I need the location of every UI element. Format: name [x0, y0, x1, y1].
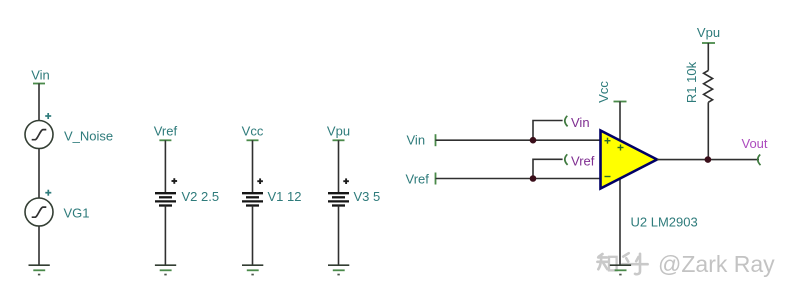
- svg-text:V1 12: V1 12: [268, 189, 302, 204]
- svg-text:Vcc: Vcc: [596, 81, 611, 103]
- junction: [530, 175, 537, 182]
- op-amp U2: [601, 131, 698, 230]
- net label Vin: [565, 115, 590, 130]
- svg-text:Vref: Vref: [154, 124, 178, 139]
- wire: [164, 206, 166, 266]
- watermark: [597, 253, 647, 274]
- svg-text:V2 2.5: V2 2.5: [182, 189, 220, 204]
- wire: [657, 159, 759, 161]
- node Vpu (pull-up): [697, 25, 720, 43]
- wire: [619, 178, 621, 265]
- svg-text:@Zark Ray: @Zark Ray: [658, 251, 775, 277]
- wire: [436, 139, 601, 141]
- net label Vref: [565, 153, 595, 168]
- wire: [252, 206, 254, 266]
- node Vout: [742, 136, 768, 165]
- source V_Noise: [25, 113, 113, 149]
- svg-text:V_Noise: V_Noise: [64, 129, 113, 144]
- wire: [38, 149, 40, 199]
- wire: [164, 140, 166, 193]
- wire: [338, 206, 340, 266]
- ground: [610, 265, 631, 275]
- svg-text:U2 LM2903: U2 LM2903: [631, 215, 698, 230]
- wire: [707, 102, 709, 159]
- node Vpu: [327, 124, 350, 141]
- node Vcc: [242, 124, 264, 141]
- wire: [338, 140, 340, 193]
- svg-text:Vref: Vref: [571, 153, 595, 168]
- wire: [707, 43, 709, 71]
- wire: [436, 178, 601, 180]
- wire: [533, 159, 563, 178]
- node Vref: [154, 124, 178, 141]
- svg-text:Vpu: Vpu: [697, 25, 720, 40]
- wire: [619, 102, 621, 143]
- svg-text:Vpu: Vpu: [327, 124, 350, 139]
- wire: [252, 140, 254, 193]
- wire: [38, 84, 40, 121]
- junction: [705, 156, 712, 163]
- svg-text:R1 10k: R1 10k: [684, 61, 699, 103]
- ground: [29, 265, 50, 275]
- battery V2: [155, 178, 219, 205]
- svg-text:Vcc: Vcc: [242, 124, 264, 139]
- battery V1: [242, 178, 301, 205]
- battery V3: [328, 178, 380, 205]
- svg-text:Vref: Vref: [406, 171, 430, 186]
- svg-text:Vin: Vin: [571, 115, 590, 130]
- junction: [530, 137, 537, 144]
- node Vin input: [407, 132, 436, 147]
- wire: [38, 226, 40, 265]
- svg-text:Vout: Vout: [742, 136, 768, 151]
- wire: [533, 121, 563, 141]
- node Vref input: [406, 171, 436, 186]
- node Vcc (op-amp supply): [596, 81, 627, 103]
- ground: [242, 265, 263, 275]
- node Vin: [31, 68, 50, 84]
- resistor R1: [684, 61, 713, 103]
- svg-text:VG1: VG1: [64, 206, 90, 221]
- svg-text:Vin: Vin: [407, 132, 426, 147]
- svg-text:Vin: Vin: [31, 68, 50, 83]
- source VG1: [25, 190, 90, 226]
- ground: [155, 265, 176, 275]
- ground: [328, 265, 349, 275]
- svg-text:V3 5: V3 5: [354, 189, 381, 204]
